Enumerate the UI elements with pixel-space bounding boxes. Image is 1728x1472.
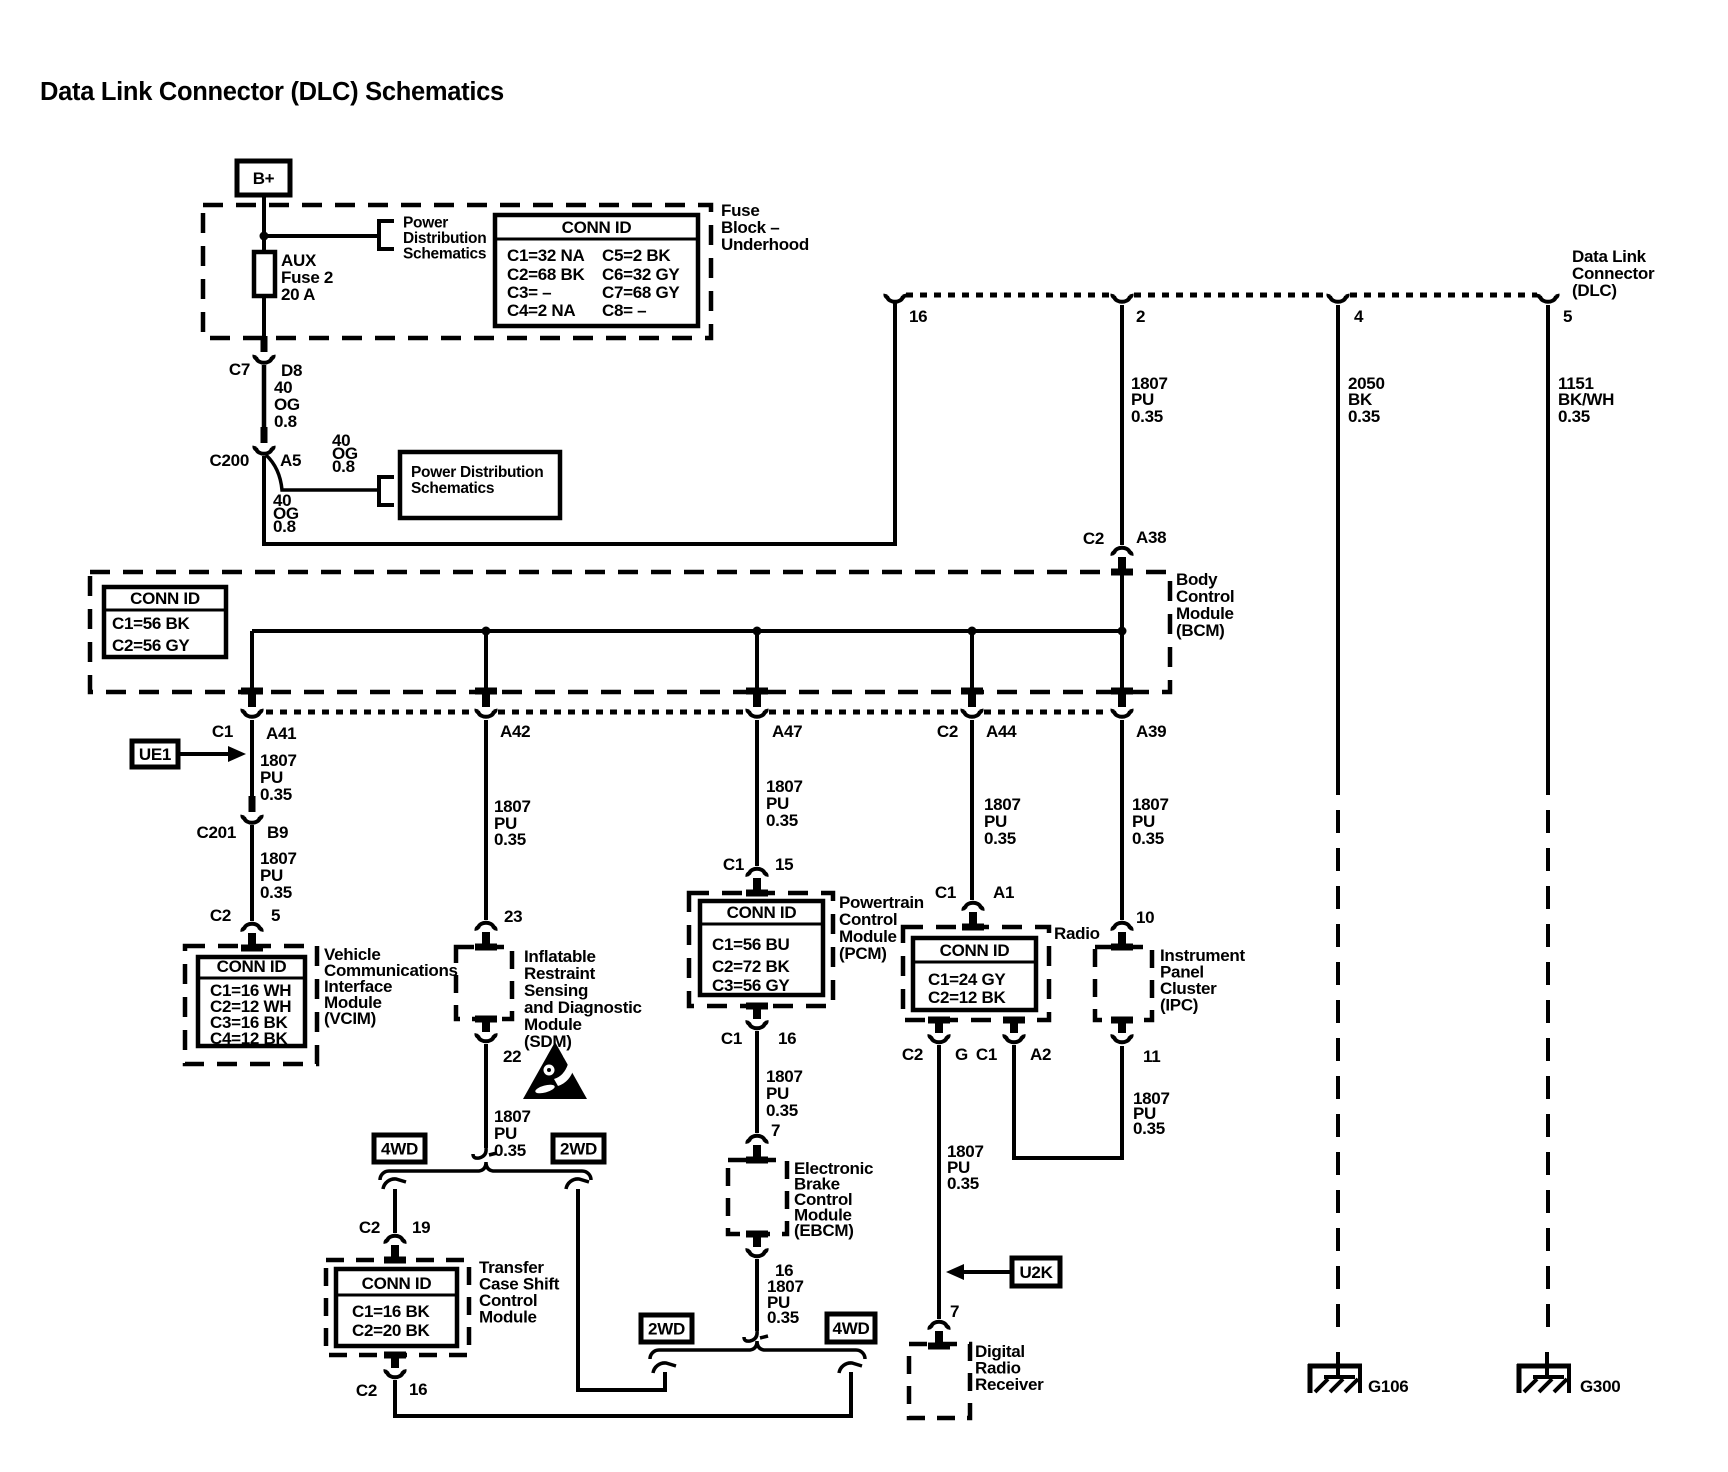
svg-text:16: 16 bbox=[409, 1380, 427, 1399]
svg-text:A2: A2 bbox=[1030, 1045, 1051, 1064]
svg-text:7: 7 bbox=[950, 1302, 959, 1321]
svg-text:C1=24 GY: C1=24 GY bbox=[928, 970, 1006, 989]
svg-text:C3= –: C3= – bbox=[507, 283, 551, 302]
svg-text:Power Distribution: Power Distribution bbox=[411, 464, 543, 481]
svg-text:A38: A38 bbox=[1136, 528, 1166, 547]
svg-text:C1=32 NA: C1=32 NA bbox=[507, 246, 584, 265]
svg-text:G106: G106 bbox=[1368, 1377, 1408, 1396]
svg-text:C2: C2 bbox=[902, 1045, 923, 1064]
svg-text:C1: C1 bbox=[721, 1029, 742, 1048]
svg-text:(BCM): (BCM) bbox=[1176, 621, 1225, 640]
svg-text:A39: A39 bbox=[1136, 722, 1166, 741]
svg-text:10: 10 bbox=[1136, 908, 1154, 927]
svg-text:C4=12 BK: C4=12 BK bbox=[210, 1029, 288, 1048]
svg-text:C1: C1 bbox=[723, 855, 744, 874]
svg-text:(IPC): (IPC) bbox=[1160, 996, 1198, 1015]
svg-text:C201: C201 bbox=[197, 823, 236, 842]
svg-text:Module: Module bbox=[479, 1308, 537, 1327]
svg-text:4WD: 4WD bbox=[833, 1319, 870, 1338]
svg-text:0.35: 0.35 bbox=[947, 1174, 979, 1193]
svg-text:20 A: 20 A bbox=[281, 285, 315, 304]
svg-text:C1=56 BU: C1=56 BU bbox=[712, 935, 789, 954]
svg-text:0.35: 0.35 bbox=[260, 883, 292, 902]
svg-text:(VCIM): (VCIM) bbox=[324, 1009, 376, 1028]
svg-text:0.8: 0.8 bbox=[332, 457, 355, 476]
svg-text:Schematics: Schematics bbox=[403, 246, 486, 263]
svg-text:C7: C7 bbox=[229, 360, 250, 379]
svg-text:0.35: 0.35 bbox=[260, 785, 292, 804]
svg-text:2: 2 bbox=[1136, 307, 1145, 326]
svg-text:0.35: 0.35 bbox=[984, 829, 1016, 848]
svg-text:0.35: 0.35 bbox=[766, 811, 798, 830]
svg-text:C1: C1 bbox=[935, 883, 956, 902]
svg-text:C2: C2 bbox=[937, 722, 958, 741]
svg-text:0.35: 0.35 bbox=[494, 1141, 526, 1160]
svg-text:C2=12 BK: C2=12 BK bbox=[928, 988, 1006, 1007]
svg-text:CONN ID: CONN ID bbox=[130, 589, 200, 608]
svg-text:0.35: 0.35 bbox=[767, 1308, 799, 1327]
svg-text:C7=68 GY: C7=68 GY bbox=[602, 283, 680, 302]
svg-text:C1: C1 bbox=[212, 722, 233, 741]
svg-text:C2=20 BK: C2=20 BK bbox=[352, 1321, 430, 1340]
svg-text:7: 7 bbox=[771, 1121, 780, 1140]
svg-text:5: 5 bbox=[1563, 307, 1572, 326]
svg-text:(SDM): (SDM) bbox=[524, 1032, 572, 1051]
svg-text:C1=16 BK: C1=16 BK bbox=[352, 1302, 430, 1321]
svg-text:4WD: 4WD bbox=[381, 1140, 418, 1159]
svg-text:Power: Power bbox=[403, 215, 448, 232]
svg-text:C8= –: C8= – bbox=[602, 301, 646, 320]
svg-text:CONN ID: CONN ID bbox=[727, 903, 797, 922]
svg-text:B9: B9 bbox=[267, 823, 288, 842]
svg-text:15: 15 bbox=[775, 855, 793, 874]
svg-text:CONN ID: CONN ID bbox=[217, 957, 287, 976]
svg-text:0.8: 0.8 bbox=[274, 412, 297, 431]
svg-text:C2=68 BK: C2=68 BK bbox=[507, 265, 585, 284]
svg-text:C1: C1 bbox=[976, 1045, 997, 1064]
svg-text:Radio: Radio bbox=[1054, 924, 1100, 943]
svg-text:(DLC): (DLC) bbox=[1572, 281, 1617, 300]
svg-text:0.8: 0.8 bbox=[273, 517, 296, 536]
svg-text:5: 5 bbox=[271, 906, 280, 925]
svg-text:Underhood: Underhood bbox=[721, 235, 809, 254]
svg-text:11: 11 bbox=[1143, 1047, 1160, 1066]
svg-text:0.35: 0.35 bbox=[1133, 1119, 1165, 1138]
svg-text:CONN ID: CONN ID bbox=[940, 941, 1010, 960]
svg-text:2WD: 2WD bbox=[648, 1320, 685, 1339]
svg-text:0.35: 0.35 bbox=[1132, 829, 1164, 848]
svg-text:0.35: 0.35 bbox=[1348, 407, 1380, 426]
svg-text:A1: A1 bbox=[993, 883, 1014, 902]
svg-text:23: 23 bbox=[504, 907, 522, 926]
svg-text:Receiver: Receiver bbox=[975, 1375, 1044, 1394]
svg-text:0.35: 0.35 bbox=[1558, 407, 1590, 426]
svg-text:C2=72 BK: C2=72 BK bbox=[712, 957, 790, 976]
svg-text:0.35: 0.35 bbox=[494, 830, 526, 849]
svg-text:C2=56 GY: C2=56 GY bbox=[112, 636, 190, 655]
svg-text:16: 16 bbox=[778, 1029, 796, 1048]
svg-text:Data Link Connector (DLC) Sche: Data Link Connector (DLC) Schematics bbox=[40, 78, 504, 106]
svg-text:B+: B+ bbox=[253, 169, 275, 188]
svg-text:Distribution: Distribution bbox=[403, 230, 486, 247]
svg-text:2WD: 2WD bbox=[560, 1140, 597, 1159]
svg-text:C2: C2 bbox=[1083, 529, 1104, 548]
svg-text:A5: A5 bbox=[280, 451, 301, 470]
svg-text:4: 4 bbox=[1354, 307, 1364, 326]
svg-text:0.35: 0.35 bbox=[766, 1101, 798, 1120]
svg-text:G300: G300 bbox=[1580, 1377, 1620, 1396]
svg-text:(PCM): (PCM) bbox=[839, 944, 887, 963]
svg-text:C6=32 GY: C6=32 GY bbox=[602, 265, 680, 284]
svg-text:C1=56 BK: C1=56 BK bbox=[112, 614, 190, 633]
svg-text:19: 19 bbox=[412, 1218, 430, 1237]
svg-text:UE1: UE1 bbox=[139, 745, 171, 764]
svg-text:C5=2 BK: C5=2 BK bbox=[602, 246, 671, 265]
svg-text:C2: C2 bbox=[359, 1218, 380, 1237]
svg-text:G: G bbox=[955, 1045, 968, 1064]
svg-text:16: 16 bbox=[909, 307, 927, 326]
svg-text:22: 22 bbox=[503, 1047, 521, 1066]
svg-text:Schematics: Schematics bbox=[411, 480, 494, 497]
svg-text:C200: C200 bbox=[210, 451, 249, 470]
svg-text:A47: A47 bbox=[772, 722, 802, 741]
svg-text:C4=2 NA: C4=2 NA bbox=[507, 301, 575, 320]
svg-text:U2K: U2K bbox=[1019, 1263, 1053, 1282]
svg-text:CONN ID: CONN ID bbox=[362, 1274, 432, 1293]
svg-text:A42: A42 bbox=[500, 722, 530, 741]
svg-text:C2: C2 bbox=[210, 906, 231, 925]
svg-text:A44: A44 bbox=[986, 722, 1017, 741]
svg-text:A41: A41 bbox=[266, 724, 296, 743]
svg-text:C3=56 GY: C3=56 GY bbox=[712, 976, 790, 995]
svg-text:0.35: 0.35 bbox=[1131, 407, 1163, 426]
svg-text:(EBCM): (EBCM) bbox=[794, 1221, 854, 1240]
svg-text:CONN ID: CONN ID bbox=[562, 218, 632, 237]
svg-text:C2: C2 bbox=[356, 1381, 377, 1400]
